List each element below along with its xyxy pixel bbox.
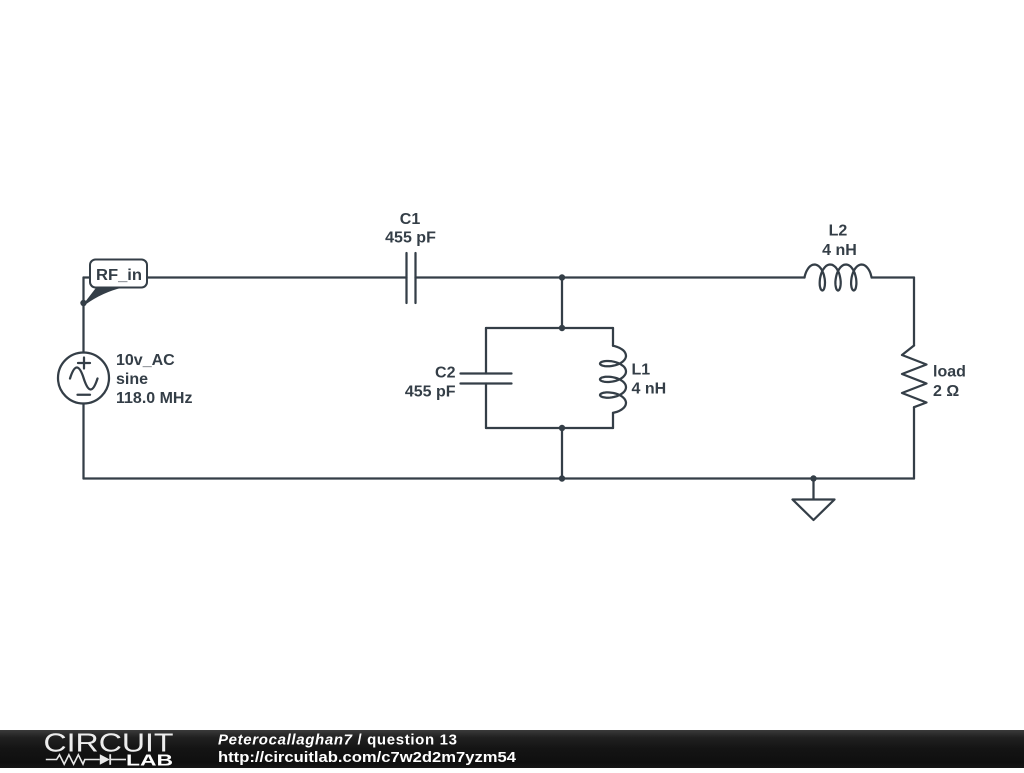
voltage source sine mark xyxy=(70,368,98,390)
ground triangle xyxy=(793,500,835,521)
wire left branch upper (RF_in node to source) xyxy=(82,278,84,353)
svg-text:http://circuitlab.com/c7w2d2m7: http://circuitlab.com/c7w2d2m7yzm54 xyxy=(218,749,517,766)
junction dot bottom rail / ground xyxy=(810,475,816,481)
svg-text:2 Ω: 2 Ω xyxy=(933,383,959,400)
wire tank box left upper lead xyxy=(485,328,487,374)
wire tank box left lower lead xyxy=(485,384,487,429)
svg-text:Peterocallaghan7 / question 13: Peterocallaghan7 / question 13 xyxy=(218,732,458,749)
wire middle branch upper xyxy=(561,278,563,329)
node RF_in flag pointer xyxy=(84,287,124,305)
wire top left from source corner to C1 xyxy=(84,276,407,278)
voltage source V1 circle xyxy=(58,353,109,404)
inductor L1 xyxy=(600,346,626,413)
node RF_in flag box xyxy=(90,260,147,288)
svg-text:C1: C1 xyxy=(400,211,421,228)
svg-text:4 nH: 4 nH xyxy=(632,381,667,398)
wire middle branch lower xyxy=(561,428,563,479)
voltage source minus mark xyxy=(78,394,91,396)
capacitor C2 xyxy=(461,374,512,384)
logo diode xyxy=(100,754,126,765)
wire tank box bottom xyxy=(486,427,613,429)
svg-text:118.0 MHz: 118.0 MHz xyxy=(116,390,192,407)
inductor L2 xyxy=(805,265,872,291)
junction dot RF_in node xyxy=(80,300,86,306)
svg-text:C2: C2 xyxy=(435,365,456,382)
footer bar xyxy=(0,730,1024,768)
wire tank box right lower lead xyxy=(612,413,614,428)
wire bottom rail xyxy=(84,477,915,479)
ground stem xyxy=(812,479,814,500)
wire right branch upper lead xyxy=(913,278,915,346)
junction dot bottom rail / middle branch xyxy=(559,475,565,481)
svg-text:sine: sine xyxy=(116,371,148,388)
svg-text:L1: L1 xyxy=(632,362,651,379)
junction dot tank top xyxy=(559,325,565,331)
svg-text:RF_in: RF_in xyxy=(96,267,142,284)
svg-text:10v_AC: 10v_AC xyxy=(116,352,175,369)
svg-text:4 nH: 4 nH xyxy=(822,242,857,259)
wire top middle from C1 to L2 xyxy=(416,276,805,278)
junction dot tank bottom xyxy=(559,425,565,431)
wire right branch lower lead xyxy=(913,407,915,478)
junction dot top rail / middle branch xyxy=(559,274,565,280)
svg-text:LAB: LAB xyxy=(126,753,173,769)
svg-text:load: load xyxy=(933,364,966,381)
logo resistor squiggle xyxy=(46,755,100,764)
capacitor C1 xyxy=(407,253,416,303)
wire tank box right upper lead xyxy=(612,328,614,346)
voltage source plus mark xyxy=(78,358,90,369)
wire top right from L2 to right corner xyxy=(872,276,914,278)
wire left branch lower (source to bottom rail) xyxy=(82,404,84,479)
svg-text:455 pF: 455 pF xyxy=(385,230,436,247)
svg-text:L2: L2 xyxy=(829,223,848,240)
resistor load xyxy=(902,346,927,408)
wire tank box top xyxy=(486,327,613,329)
svg-text:455 pF: 455 pF xyxy=(405,384,456,401)
